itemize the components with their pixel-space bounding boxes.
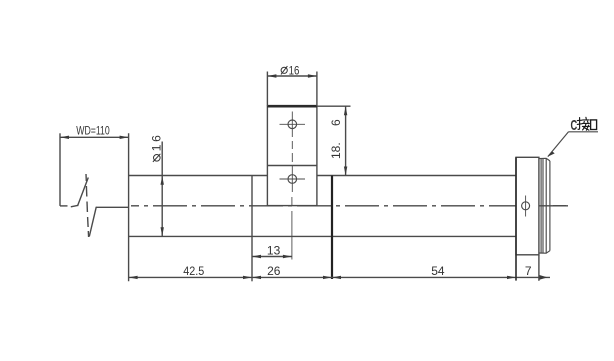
text left diameter rotated bbox=[150, 135, 164, 162]
hole axis dashes bbox=[291, 141, 293, 162]
svg-text:WD=110: WD=110 bbox=[76, 126, 110, 138]
svg-text:42.5: 42.5 bbox=[183, 264, 204, 278]
dimension WD=110 bbox=[60, 136, 129, 139]
centerline tail right bbox=[553, 205, 566, 207]
hanzi kou bbox=[591, 120, 597, 130]
extension lines bottom bbox=[516, 157, 539, 280]
svg-text:13: 13 bbox=[267, 244, 281, 258]
tube seam at x=252 bbox=[251, 176, 253, 282]
svg-text:6: 6 bbox=[329, 119, 343, 126]
svg-text:7: 7 bbox=[525, 264, 532, 278]
flange set screw circle bbox=[522, 196, 530, 217]
object plane dashes bbox=[60, 205, 68, 207]
hole circle bottom bbox=[280, 166, 306, 192]
bottom dimension chain line bbox=[129, 275, 550, 280]
hanzi jie bbox=[577, 117, 589, 130]
main tube outline bbox=[129, 133, 516, 281]
centerline optical axis bbox=[96, 206, 568, 208]
flange body bbox=[516, 157, 539, 255]
dimension 18.6 bbox=[317, 106, 351, 175]
svg-text:54: 54 bbox=[431, 264, 445, 278]
dimension left diameter 16 vertical bbox=[161, 142, 164, 237]
c-mount rings bbox=[539, 158, 550, 253]
svg-text:16: 16 bbox=[289, 64, 300, 78]
text top diameter bbox=[281, 66, 287, 74]
dimension top diameter 16 bbox=[267, 72, 317, 107]
hole center extension line bbox=[291, 197, 293, 260]
dimension 13 bbox=[252, 255, 292, 258]
svg-text:26: 26 bbox=[267, 264, 281, 278]
break symbol zigzag bbox=[78, 174, 97, 237]
hole circle top bbox=[280, 112, 306, 138]
tube seam thick at x=332 bbox=[331, 176, 333, 280]
mounting block bbox=[267, 106, 317, 205]
wire WD extension left vertical bbox=[59, 133, 61, 206]
svg-text:C: C bbox=[571, 117, 578, 134]
leader line C-mount bbox=[548, 132, 598, 157]
text 18.6 rotated bbox=[329, 119, 343, 159]
svg-text:18.: 18. bbox=[329, 142, 343, 159]
